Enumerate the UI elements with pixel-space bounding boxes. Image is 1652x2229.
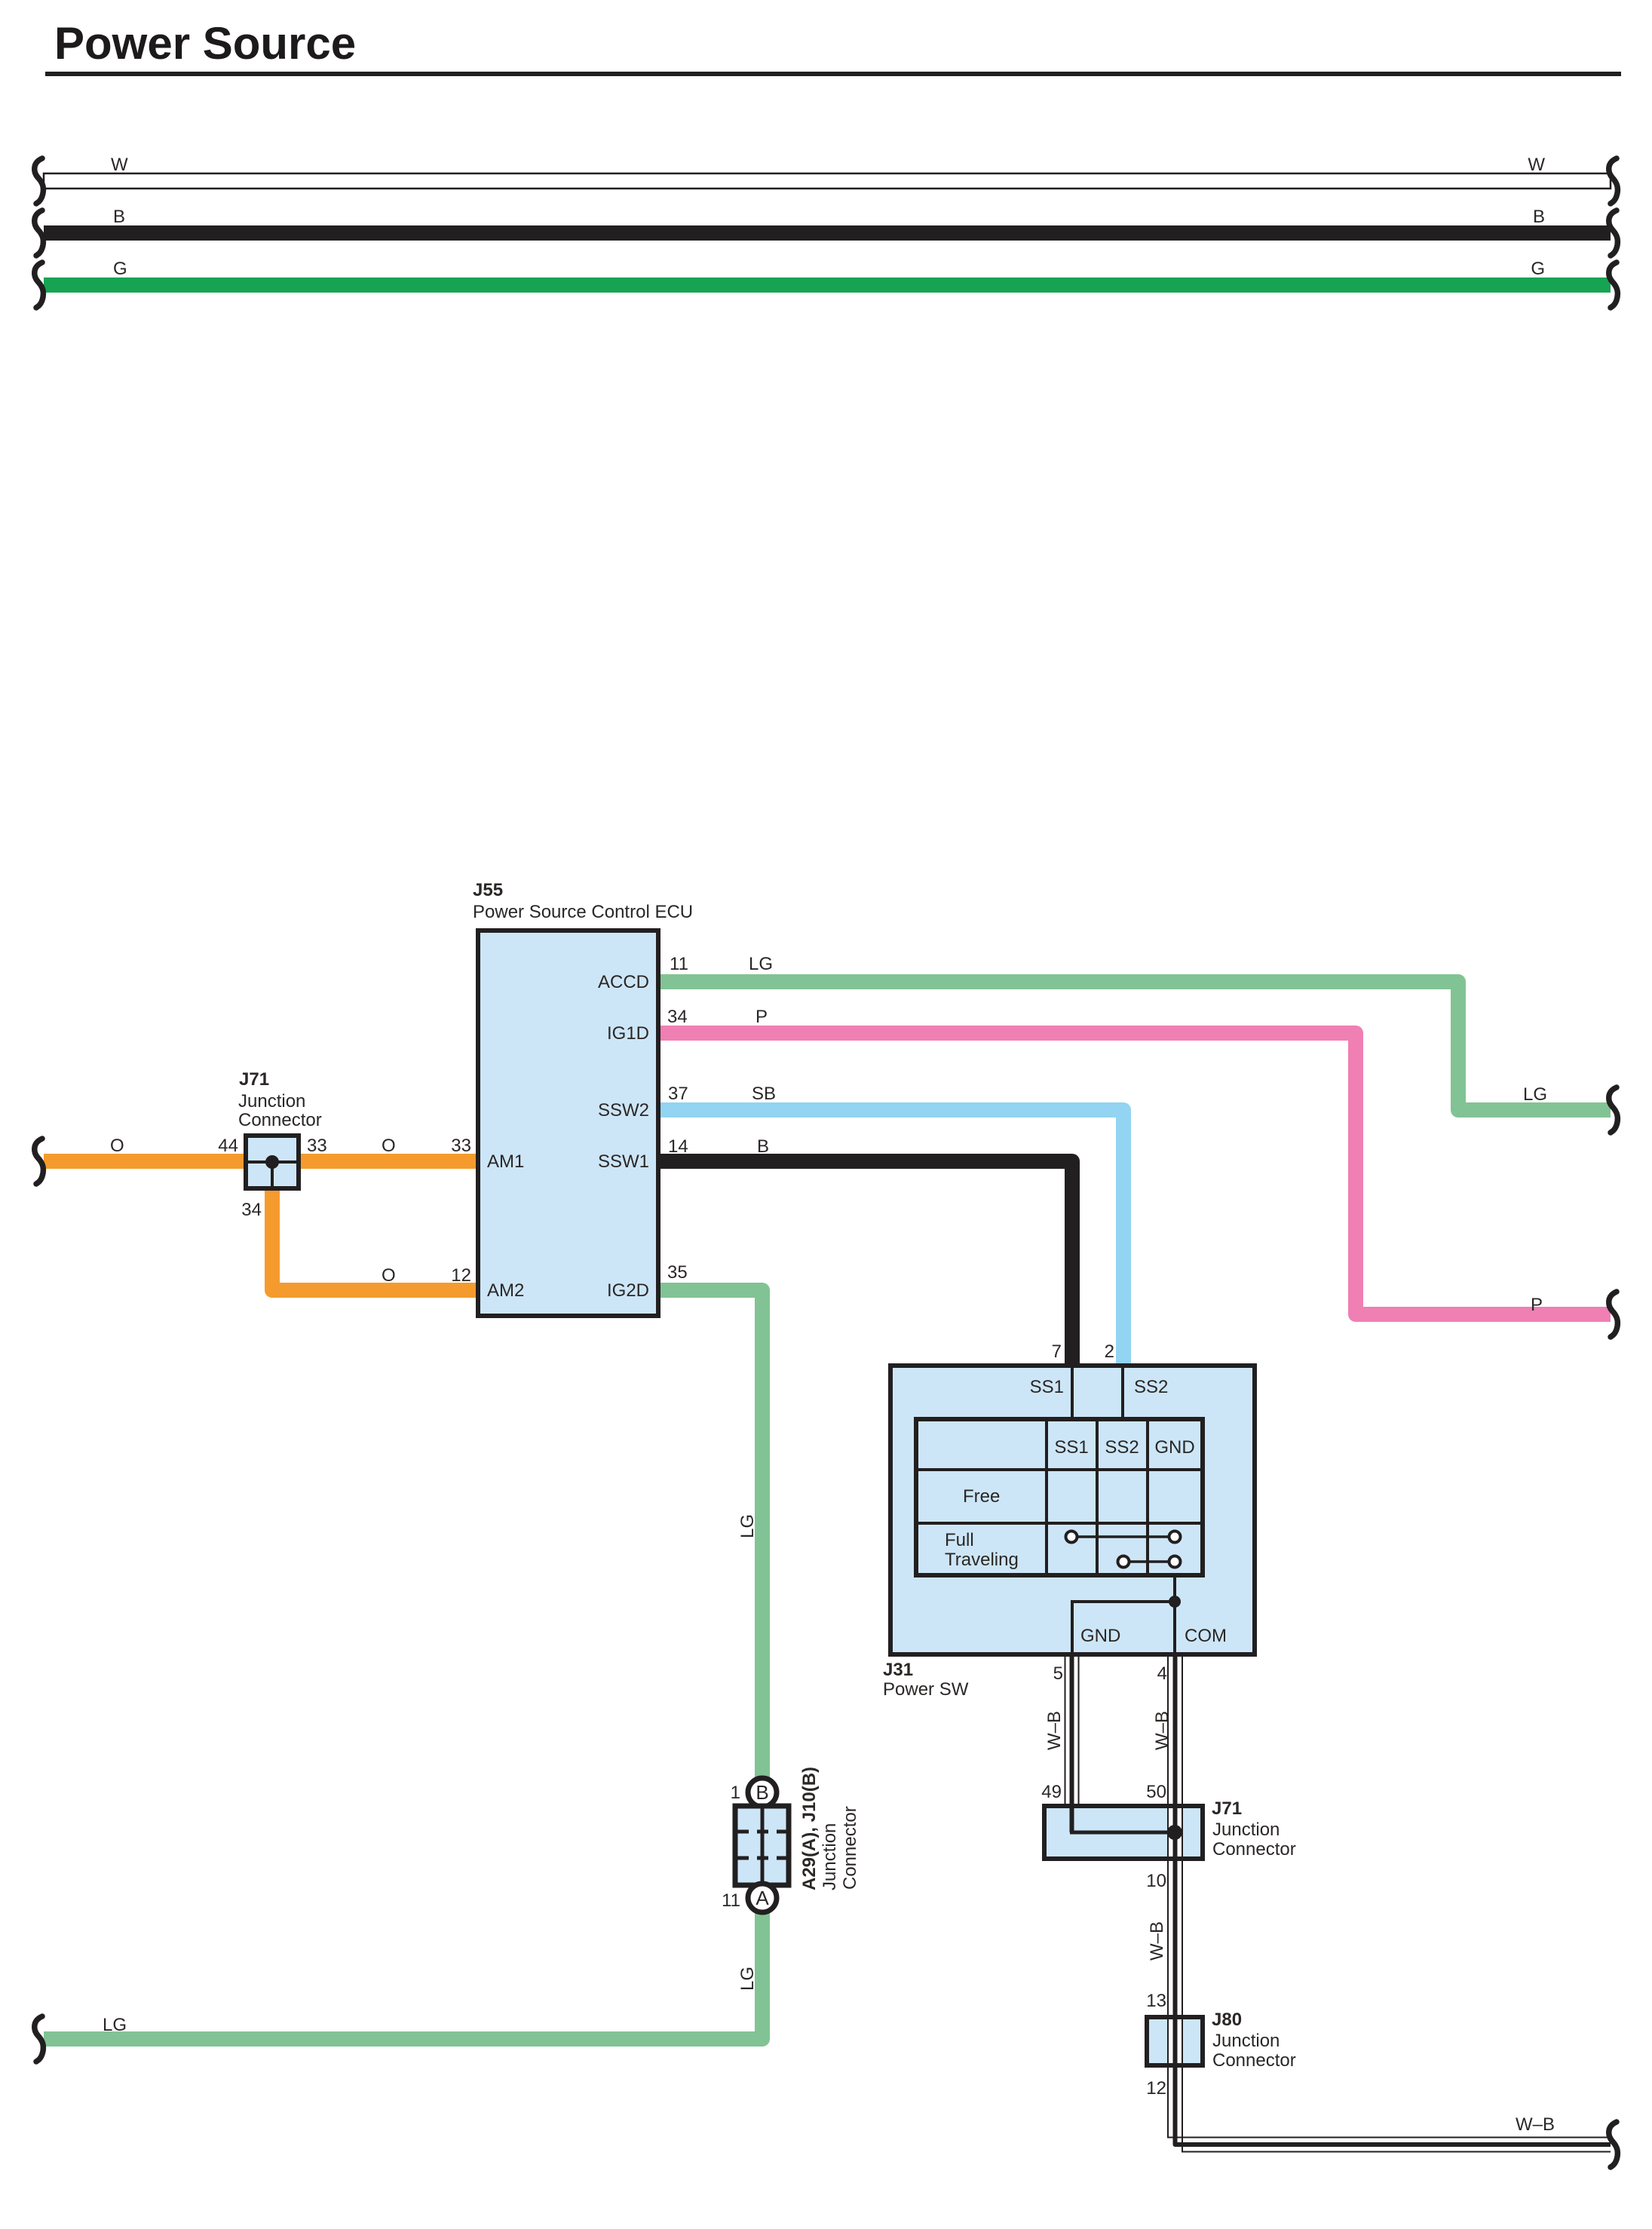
SS2 pin stub <box>1121 1368 1124 1419</box>
svg-text:B: B <box>1533 207 1545 227</box>
svg-text:W–B: W–B <box>1147 1921 1167 1961</box>
internal junction dot <box>1169 1596 1181 1608</box>
svg-text:Connector: Connector <box>840 1806 860 1890</box>
J31 contact table frame <box>916 1419 1203 1575</box>
table column line 3 <box>1146 1419 1149 1575</box>
svg-text:7: 7 <box>1052 1341 1062 1362</box>
junction connector J71 (lower) box fill <box>1044 1806 1203 1859</box>
svg-text:Connector: Connector <box>1212 1839 1296 1860</box>
J71 internal branch line <box>271 1162 274 1186</box>
svg-text:Junction: Junction <box>820 1823 840 1890</box>
svg-text:11: 11 <box>722 1890 740 1911</box>
svg-text:P: P <box>756 1007 768 1027</box>
SS1 pin stub <box>1071 1368 1074 1419</box>
switch J31 box <box>890 1366 1255 1654</box>
svg-text:12: 12 <box>451 1265 471 1286</box>
connector circle A <box>748 1884 777 1912</box>
svg-text:44: 44 <box>218 1136 238 1156</box>
wire P from IG1D <box>656 1033 1611 1314</box>
junction connector J71 (lower) box border <box>1044 1806 1203 1859</box>
svg-text:SS2: SS2 <box>1105 1437 1139 1458</box>
svg-text:G: G <box>113 259 127 279</box>
table row line 2 <box>916 1522 1203 1525</box>
connector grid dashed row 2 <box>737 1856 786 1860</box>
svg-text:Connector: Connector <box>238 1110 322 1130</box>
ECU J55 box <box>478 931 658 1316</box>
svg-text:AM2: AM2 <box>487 1280 524 1301</box>
junction connector J80 box fill <box>1147 2017 1203 2065</box>
svg-text:37: 37 <box>668 1084 688 1104</box>
svg-text:Junction: Junction <box>1212 2031 1280 2051</box>
svg-text:14: 14 <box>668 1136 688 1157</box>
wire W-B GND black stripe <box>1070 1652 1074 1832</box>
J71 lower internal link <box>1072 1806 1175 1832</box>
connector grid dashed row 1 <box>737 1830 786 1834</box>
wire LG lower segment to bottom left <box>44 1913 762 2039</box>
svg-text:W: W <box>1528 155 1545 175</box>
svg-text:34: 34 <box>667 1007 688 1027</box>
svg-text:COM: COM <box>1185 1626 1227 1646</box>
svg-text:J31: J31 <box>883 1660 913 1680</box>
svg-text:A: A <box>756 1887 769 1909</box>
svg-text:J71: J71 <box>239 1069 269 1090</box>
svg-text:Junction: Junction <box>238 1091 305 1111</box>
wire SB from SSW2 to SS2 <box>656 1110 1123 1369</box>
wire O branch to AM2 <box>272 1184 480 1290</box>
contact line SS1-GND <box>1077 1535 1169 1538</box>
svg-text:W–B: W–B <box>1152 1711 1172 1750</box>
svg-text:W–B: W–B <box>1044 1711 1065 1750</box>
svg-text:Power Source Control ECU: Power Source Control ECU <box>473 902 693 922</box>
contact line SS2-GND <box>1129 1560 1169 1563</box>
J71 internal bus line <box>248 1160 296 1164</box>
GND internal link <box>1072 1602 1175 1653</box>
svg-text:O: O <box>382 1265 396 1286</box>
svg-text:Traveling: Traveling <box>945 1550 1019 1570</box>
wire W-B COM black stripe <box>1175 1652 1611 2145</box>
svg-text:5: 5 <box>1053 1663 1063 1684</box>
wire W bus (top) <box>44 173 1611 189</box>
svg-text:33: 33 <box>307 1136 327 1156</box>
svg-text:Full: Full <box>945 1530 974 1550</box>
svg-text:33: 33 <box>451 1136 471 1156</box>
connector grid vertical <box>761 1808 765 1883</box>
svg-text:LG: LG <box>737 1514 758 1538</box>
wire W-B COM outer outline <box>1182 1657 1611 2152</box>
svg-text:LG: LG <box>103 2015 127 2035</box>
svg-text:J80: J80 <box>1212 2010 1242 2030</box>
svg-text:A29(A), J10(B): A29(A), J10(B) <box>799 1767 820 1890</box>
svg-text:IG1D: IG1D <box>607 1023 649 1044</box>
svg-text:G: G <box>1531 259 1545 279</box>
svg-text:50: 50 <box>1146 1782 1166 1802</box>
junction connector J80 box border <box>1147 2017 1203 2065</box>
wire B break right <box>1609 210 1618 256</box>
wire O break left <box>35 1139 44 1184</box>
title rule <box>45 72 1621 76</box>
svg-text:AM1: AM1 <box>487 1151 524 1172</box>
wire LG from IG2D down <box>656 1290 762 1777</box>
table column line 1 <box>1045 1419 1048 1575</box>
J71 internal junction dot <box>265 1155 279 1169</box>
contact circle GND row1 <box>1169 1531 1181 1543</box>
COM internal link <box>1173 1602 1176 1653</box>
svg-text:Junction: Junction <box>1212 1820 1280 1840</box>
wire P break right <box>1609 1292 1618 1337</box>
svg-text:2: 2 <box>1105 1341 1114 1362</box>
J71 lower junction dot <box>1167 1825 1182 1840</box>
wire LG from ACCD <box>656 982 1611 1110</box>
svg-text:B: B <box>756 1781 768 1804</box>
wire W-B COM white body <box>1175 1657 1611 2145</box>
svg-text:35: 35 <box>667 1262 688 1283</box>
svg-text:B: B <box>757 1136 769 1157</box>
wire W break right <box>1609 158 1618 204</box>
svg-text:J55: J55 <box>473 880 503 900</box>
svg-text:Free: Free <box>963 1486 1000 1507</box>
svg-text:13: 13 <box>1146 1991 1166 2011</box>
wire B break left <box>35 210 44 256</box>
wire G break right <box>1609 262 1618 308</box>
wire W-B COM inner outline <box>1168 1657 1611 2138</box>
svg-text:ACCD: ACCD <box>598 972 649 992</box>
svg-text:LG: LG <box>1523 1084 1547 1105</box>
svg-text:LG: LG <box>749 954 773 974</box>
svg-text:LG: LG <box>737 1967 758 1991</box>
svg-text:49: 49 <box>1041 1782 1062 1802</box>
svg-text:Connector: Connector <box>1212 2050 1296 2071</box>
svg-text:GND: GND <box>1080 1626 1120 1646</box>
svg-text:SS1: SS1 <box>1054 1437 1088 1458</box>
wire W-B GND pin5 white body <box>1065 1657 1080 1804</box>
junction connector A29(A)/J10(B) box <box>735 1806 789 1885</box>
svg-text:W: W <box>111 155 128 175</box>
wire G bus <box>44 277 1611 293</box>
svg-text:SSW1: SSW1 <box>598 1151 649 1172</box>
svg-text:O: O <box>382 1136 396 1156</box>
svg-text:P: P <box>1531 1295 1543 1315</box>
contact circle GND row2 <box>1169 1556 1181 1568</box>
junction connector J71 (left) box <box>246 1136 299 1188</box>
svg-text:B: B <box>113 207 125 227</box>
svg-text:J71: J71 <box>1212 1798 1242 1819</box>
GND column drop line <box>1173 1575 1176 1602</box>
wire LG break right <box>1609 1087 1618 1133</box>
wire W-B GND outlines <box>1065 1657 1066 1806</box>
wire G break left <box>35 262 44 308</box>
svg-text:SSW2: SSW2 <box>598 1100 649 1121</box>
svg-text:1: 1 <box>731 1783 740 1803</box>
wire B bus <box>44 225 1611 241</box>
wire B from SSW1 to SS1 <box>656 1161 1072 1369</box>
svg-text:12: 12 <box>1146 2078 1166 2099</box>
wire O to AM1 <box>44 1154 480 1169</box>
wire LG break bottom left <box>35 2016 44 2062</box>
svg-text:10: 10 <box>1146 1871 1166 1891</box>
svg-text:4: 4 <box>1157 1663 1167 1684</box>
contact circle SS1 <box>1066 1531 1077 1543</box>
svg-text:Power SW: Power SW <box>883 1679 969 1700</box>
table column line 2 <box>1096 1419 1099 1575</box>
svg-text:Power Source: Power Source <box>54 18 356 69</box>
wire W break left <box>35 158 44 204</box>
svg-text:SB: SB <box>752 1084 776 1104</box>
svg-text:W–B: W–B <box>1516 2114 1555 2135</box>
svg-text:SS1: SS1 <box>1030 1377 1064 1397</box>
connector circle B <box>748 1778 777 1807</box>
contact circle SS2 <box>1118 1556 1129 1568</box>
svg-text:11: 11 <box>670 954 688 974</box>
svg-text:34: 34 <box>241 1200 262 1220</box>
svg-text:IG2D: IG2D <box>607 1280 649 1301</box>
wire W-B break right <box>1609 2122 1618 2167</box>
svg-text:SS2: SS2 <box>1134 1377 1168 1397</box>
svg-text:GND: GND <box>1154 1437 1194 1458</box>
table row line 1 <box>916 1468 1203 1471</box>
svg-text:O: O <box>110 1136 124 1156</box>
